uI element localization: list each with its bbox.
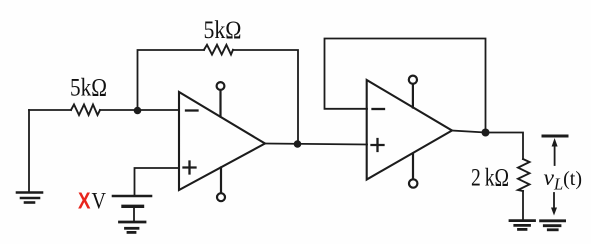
ground G3 (under R3)	[510, 221, 535, 230]
wire: U2 feedback loop (output node up, across top, down, into inverting input)	[325, 39, 486, 133]
svg-text:2 kΩ: 2 kΩ	[471, 165, 509, 192]
ground G1 (left, input reference)	[17, 193, 42, 203]
wire: left vertical to ground	[28, 110, 30, 192]
battery V1 (source XV)	[113, 196, 151, 221]
resistor R2 5kΩ (feedback)	[204, 45, 233, 55]
svg-text:X: X	[78, 188, 91, 214]
op-amp U1 negative supply pin	[217, 168, 225, 202]
wire: U1 feedback loop (node A up, across top, down to output)	[138, 50, 299, 143]
node C (U2 output junction)	[482, 129, 490, 137]
node B (U1 output junction)	[294, 140, 302, 148]
op-amp U1 positive supply pin	[217, 82, 225, 116]
ground G2 (under battery V1)	[120, 222, 146, 232]
node A (inverting input junction of U1)	[134, 107, 142, 115]
ground G4 (load reference)	[541, 221, 565, 230]
svg-text:5kΩ: 5kΩ	[204, 17, 242, 44]
wire: U1 + input lead to source	[135, 168, 180, 195]
op-amp U1 minus sign	[186, 109, 198, 111]
resistor R3 2kΩ (load)	[518, 159, 530, 191]
op-amp U2 negative supply pin	[409, 154, 417, 188]
wire: R3 bottom lead	[522, 191, 524, 220]
arrow: vL(t) upward reference arrow	[552, 138, 558, 165]
svg-text:vL(t): vL(t)	[544, 165, 583, 194]
wire: U2 output	[452, 131, 523, 160]
arrow: vL(t) downward reference arrow	[551, 193, 557, 216]
op-amp U2 plus sign	[372, 139, 384, 151]
op-amp U2 minus sign	[373, 108, 385, 110]
op-amp U2 triangle	[367, 80, 452, 180]
resistor R1 5kΩ (input)	[71, 105, 100, 116]
svg-text:5kΩ: 5kΩ	[70, 75, 107, 102]
op-amp U2 positive supply pin	[409, 76, 417, 108]
load terminal bar (top of vL measurement)	[543, 135, 567, 138]
wire: U1 output to U2 noninverting input	[265, 144, 367, 145]
wire: left input horizontal segment	[29, 109, 179, 111]
svg-text:V: V	[92, 189, 107, 214]
op-amp U1 triangle	[179, 92, 265, 190]
op-amp U1 plus sign	[184, 162, 196, 174]
